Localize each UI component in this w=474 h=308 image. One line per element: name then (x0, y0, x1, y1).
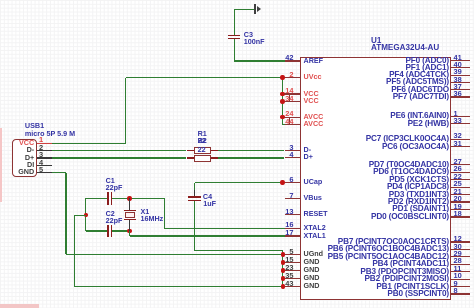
U1 pin number 4 (289, 150, 293, 159)
U1 pin name GND (304, 282, 320, 291)
wire GND: run to UGnd (66, 254, 283, 255)
U1 pin name RESET (304, 210, 328, 219)
U1 pin number 44 (285, 117, 293, 126)
wire GND: from USB1 pin5 (52, 172, 66, 173)
wire GND: to GND pin row 1 (283, 254, 286, 255)
label C4 value (203, 200, 216, 209)
resistor R2 lead right (211, 157, 218, 158)
USB1 pin name D- (27, 146, 35, 155)
U1 pin 7 VBus (left) (285, 198, 301, 199)
label C4 (203, 193, 212, 202)
U1 pin name PF6 (ADC6TDO (391, 85, 449, 95)
U1 pin number 26 (454, 164, 462, 173)
USB1 pin number 3 (39, 150, 43, 159)
wire VCC: to AVCC pin24 (282, 117, 285, 118)
U1 pin name PD3 (TXD1INT3) (389, 190, 449, 200)
wire AREF-net: vertical into C3 (234, 9, 235, 35)
U1 pin name VBus (304, 194, 322, 203)
U1 pin name PB3 (PDOPCINT3MISO) (360, 267, 449, 277)
U1 pin number 24 (285, 109, 293, 118)
U1 pin name XTAL1 (304, 232, 326, 241)
U1 pin 19 PD1 (SDAINT1) (right) (451, 209, 470, 210)
U1 pin name PB6 (PCINT6OC1BOC4BADC13) (328, 244, 449, 254)
U1 pin number 17 (285, 228, 293, 237)
wire D+: R2 to U1 (218, 157, 285, 158)
U1 pin 33 PE2 (HWB) (right) (451, 123, 470, 124)
U1 pin number 19 (454, 202, 462, 211)
wire GND: stub to down-line (74, 215, 86, 216)
U1 pin 40 PF1 (ADC1) (right) (451, 67, 470, 68)
resistor R2 lead left (187, 157, 194, 158)
U1 pin name PB0 (SSPCINT0) (387, 289, 449, 299)
wire VCC: to AVCC pin44 (282, 124, 285, 125)
U1 pin name XTAL2 (304, 224, 326, 233)
U1 pin name PF0 (ADC0) (405, 56, 449, 66)
wire GND: left vertical down (74, 215, 75, 287)
U1 pin number 8 (454, 286, 458, 295)
U1 pin name VCC (304, 90, 319, 99)
U1 pin 5 UGnd (left) (285, 254, 301, 255)
capacitor C3 100nF (228, 35, 239, 36)
U1 pin number 27 (454, 157, 462, 166)
U1 pin 13 RESET (left) (285, 214, 301, 215)
U1 pin name PD4 (ICP1ADC8) (387, 182, 449, 192)
U1 pin 11 PB3 (PDOPCINT3MISO) (right) (451, 271, 470, 272)
U1 pin number 21 (454, 187, 462, 196)
USB1 pin name D+ (25, 154, 34, 163)
U1 pin name PC6 (OC3AOC4A) (382, 142, 449, 152)
U1 pin name UCap (304, 178, 323, 187)
junction GND row 4 (281, 276, 286, 281)
junction XTAL2-net at X1 top (127, 196, 132, 201)
U1 pin name AVCC (304, 120, 324, 129)
wire XTAL2-net: to XTAL2 pin (164, 228, 285, 229)
U1 pin number 29 (454, 249, 462, 258)
U1 pin 34 VCC (left) (285, 101, 301, 102)
label R1 (198, 130, 207, 139)
U1 pin name PD1 (SDAINT1) (392, 204, 449, 214)
U1 pin number 2 (289, 70, 293, 79)
crystal X1 lead bottom (129, 220, 130, 232)
U1 pin number 12 (454, 234, 462, 243)
wire GND: to GND pin row 2 (283, 262, 286, 263)
label R1 value 22 (198, 137, 206, 146)
crystal X1 plate top (124, 210, 135, 211)
U1 pin 2 UVcc (left) (285, 77, 301, 78)
junction UCAP at pin6 (280, 180, 285, 185)
USB1 pin number 5 (39, 165, 43, 174)
U1 pin 10 PB2 (PDIPCINT2MOSI) (right) (451, 279, 470, 280)
label C1 (106, 177, 115, 186)
U1 pin name PD2 (RXD1INT2) (388, 197, 449, 207)
wire GND: USB down-line (65, 173, 66, 255)
U1 pin 1 PE6 (INT.6AIN0) (right) (451, 116, 470, 117)
wire GND: C4 down (194, 201, 195, 251)
wire XTAL1-net: to XTAL1 pin (130, 235, 286, 236)
USB1 pin 3 D+ (37, 157, 52, 158)
U1 pin name PB1 (PCINT1SCLK) (376, 282, 449, 292)
wire GND: C4 run to bus (195, 250, 283, 251)
wire GND: jog into UGnd dot (282, 251, 283, 255)
U1 pin name D+ (304, 153, 313, 162)
U1 pin 8 PB0 (SSPCINT0) (right) (451, 293, 470, 294)
U1 pin name GND (304, 266, 320, 275)
junction GND row 5 (281, 284, 286, 289)
U1 pin 16 XTAL2 (left) (285, 228, 301, 229)
USB1 pin 4 DI (37, 165, 52, 166)
label R2 value 22 (198, 146, 206, 155)
U1 pin name AREF (304, 57, 324, 66)
junction VCC at UVcc (280, 75, 285, 80)
wire GND: bus at U1 (282, 255, 283, 287)
U1 pin name PD6 (T1OC4DADC9) (373, 167, 449, 177)
wire VCC: to VCC pin34 (282, 101, 285, 102)
wire XTAL2-net: C1 to X1 node (112, 198, 164, 199)
joiner pins 24-44 (289, 117, 290, 124)
U1 pin 22 PD5 (XCK1CTS) (right) (451, 179, 470, 180)
U1 pin number 7 (289, 191, 293, 200)
U1 pin name UGnd (304, 250, 324, 259)
connector USB1 body (12, 139, 37, 177)
wire GND: bottom run to pin43 (74, 286, 283, 287)
crystal X1 plate bottom (124, 219, 135, 220)
U1 pin name PD5 (XCK1CTS) (389, 175, 449, 185)
wire XTAL2-net: down right of X1 (164, 198, 165, 228)
U1 pin name PB2 (PDIPCINT2MOSI) (365, 274, 450, 284)
wire VCC: top run to UVcc (126, 77, 286, 78)
U1 pin 28 PB4 (PCINT4ADC11) (right) (451, 264, 470, 265)
wire VCC: to VCC pin14 (282, 93, 285, 94)
U1 pin number 20 (454, 194, 462, 203)
U1 pin number 40 (454, 60, 462, 69)
U1 pin number 23 (285, 263, 293, 272)
U1 pin number 37 (454, 82, 462, 91)
wire D-: USB to R1 (52, 150, 186, 151)
resistor R2 22 (194, 155, 211, 162)
label USB1 value (25, 130, 75, 139)
wire GND: to GND pin row 3 (283, 270, 286, 271)
U1 pin name PD7 (T0OC4DADC10) (369, 160, 449, 170)
U1 pin 36 PF7 (ADC7TDI) (right) (451, 96, 470, 97)
U1 pin number 22 (454, 172, 462, 181)
U1 pin 37 PF6 (ADC6TDO (right) (451, 89, 470, 90)
label C1 value (106, 184, 123, 193)
U1 pin 12 PB7 (PCINT7OC0AOC1CRTS) (right) (451, 241, 470, 242)
U1 pin number 38 (454, 75, 462, 84)
U1 pin name GND (304, 274, 320, 283)
label C3 (244, 31, 253, 40)
junction GND row 2 (281, 260, 286, 265)
U1 pin name VCC (304, 97, 319, 106)
USB1 pin number 1 (39, 135, 43, 144)
U1 pin name GND (304, 258, 320, 267)
crystal X1 body (125, 212, 134, 217)
U1 pin name D- (304, 146, 312, 155)
wire GND: caps left vertical (85, 198, 86, 231)
U1 pin number 33 (454, 116, 462, 125)
U1 pin 24 AVCC (left) (285, 117, 301, 118)
wire VCC: bus down left of U1 (282, 78, 283, 125)
U1 pin name AVCC (304, 113, 324, 122)
U1 pin 32 PC7 (ICP3CLK0OC4A) (right) (451, 139, 470, 140)
wire AREF-net: ground lead (234, 9, 255, 10)
U1 pin name PF1 (ADC1) (405, 63, 449, 73)
U1 pin 35 GND (left) (285, 278, 301, 279)
junction VCC at pin24 (280, 115, 285, 120)
label X1 (141, 208, 150, 217)
U1 pin 23 GND (left) (285, 270, 301, 271)
wire AREF-net: to AREF pin (234, 60, 284, 61)
U1 pin number 31 (454, 139, 462, 148)
U1 pin 26 PD6 (T1OC4DADC9) (right) (451, 172, 470, 173)
U1 pin number 15 (285, 255, 293, 264)
U1 pin number 18 (454, 209, 462, 218)
U1 pin name PB5 (PCINT5OC1AOC4BADC12) (328, 252, 449, 262)
U1 pin 30 PB6 (PCINT6OC1BOC4BADC13) (right) (451, 249, 470, 250)
junction VCC at pin34 (280, 99, 285, 104)
wire XTAL1-net: jog down (129, 231, 130, 236)
U1 pin number 1 (454, 109, 458, 118)
U1 pin name PF4 (ADC4TCK) (389, 70, 449, 80)
U1 pin 43 GND (left) (285, 286, 301, 287)
U1 pin number 35 (285, 271, 293, 280)
capacitor C1 22pF (107, 192, 108, 205)
U1 pin number 42 (285, 53, 293, 62)
U1 pin 20 PD2 (RXD1INT2) (right) (451, 201, 470, 202)
U1 pin number 3 (289, 143, 293, 152)
wire XTAL2-net: left to C1 (86, 198, 108, 199)
wire VCC: up (125, 78, 126, 144)
U1 pin 41 PF0 (ADC0) (right) (451, 60, 470, 61)
U1 pin 42 AREF (left) (285, 60, 301, 61)
U1 pin number 11 (454, 264, 462, 273)
U1 pin 31 PC6 (OC3AOC4A) (right) (451, 146, 470, 147)
U1 pin number 9 (454, 279, 458, 288)
U1 pin 39 PF4 (ADC4TCK) (right) (451, 75, 470, 76)
wire D-: R1 to U1 (218, 150, 285, 151)
wire D+: USB to R2 (52, 157, 186, 158)
resistor R1 lead right (211, 150, 218, 151)
U1 pin number 10 (454, 271, 462, 280)
U1 pin 25 PD4 (ICP1ADC8) (right) (451, 187, 470, 188)
U1 pin 27 PD7 (T0OC4DADC10) (right) (451, 164, 470, 165)
junction GND row 1 (281, 252, 286, 257)
U1 pin number 28 (454, 256, 462, 265)
crystal X1 16MHz lead top (129, 198, 130, 210)
junction GND row 3 (281, 268, 286, 273)
U1 pin number 32 (454, 131, 462, 140)
resistor R1 22 (194, 147, 211, 154)
U1 pin 29 PB5 (PCINT5OC1AOC4BADC12) (right) (451, 256, 470, 257)
U1 pin number 34 (285, 94, 293, 103)
U1 pin name PB7 (PCINT7OC0AOC1CRTS) (338, 237, 449, 247)
wire AREF-net: C3 down (234, 39, 235, 61)
U1 pin number 39 (454, 67, 462, 76)
wire XTAL1-net: C2 to X1 node (112, 230, 130, 231)
USB1 pin number 4 (39, 158, 43, 167)
U1 pin name PF7 (ADC7TDI) (393, 92, 449, 102)
U1 pin 14 VCC (left) (285, 93, 301, 94)
U1 pin 21 PD3 (TXD1INT3) (right) (451, 194, 470, 195)
resistor R1 lead left (187, 150, 194, 151)
junction VCC at pin14 (280, 92, 285, 97)
label U1 (371, 36, 381, 46)
capacitor C4 1uF (194, 190, 195, 197)
label X1 value (141, 215, 164, 224)
wire GND: to GND pin row 5 (283, 286, 286, 287)
U1 pin 18 PD0 (OC0BSCLINT0) (right) (451, 216, 470, 217)
U1 pin name PB4 (PCINT4ADC11) (372, 259, 449, 269)
label R2 (overlapping R1 value 22) (198, 137, 207, 146)
U1 pin 3 D- (left) (285, 150, 301, 151)
U1 pin number 43 (285, 279, 293, 288)
U1 pin 6 UCap (left) (285, 182, 301, 183)
U1 pin 17 XTAL1 (left) (285, 235, 301, 236)
label C2 value (106, 217, 123, 226)
U1 pin 4 D+ (left) (285, 157, 301, 158)
junction GND at caps-left (84, 213, 89, 218)
U1 pin 38 PF5 (ADC5TMS)) (right) (451, 82, 470, 83)
label C3 value (244, 38, 265, 47)
USB1 pin name GND (18, 168, 34, 177)
USB1 pin 2 D- (37, 150, 52, 151)
U1 pin name PD0 (OC0BSCLINT0) (371, 212, 449, 222)
label C2 (106, 210, 115, 219)
wire XTAL1-net: left to C2 (86, 230, 108, 231)
USB1 pin number 2 (39, 143, 43, 152)
U1 pin number 36 (454, 89, 462, 98)
U1 pin 15 GND (left) (285, 262, 301, 263)
U1 pin 9 PB1 (PCINT1SCLK) (right) (451, 286, 470, 287)
wire VCC: from USB1 pin1 (52, 143, 126, 144)
U1 pin number 41 (454, 53, 462, 62)
U1 pin number 14 (285, 86, 293, 95)
U1 pin number 5 (289, 247, 293, 256)
joiner pins 14-34 (289, 94, 290, 101)
junction XTAL1-net at X1 bottom (127, 229, 132, 234)
wire GND: to GND pin row 4 (283, 278, 286, 279)
USB1 pin 5 GND (37, 172, 52, 173)
U1 pin number 6 (289, 175, 293, 184)
ground symbol (GND, rotated) (254, 4, 256, 14)
USB1 pin name VCC (19, 139, 34, 148)
capacitor C2 22pF (107, 225, 108, 238)
U1 pin number 30 (454, 242, 462, 251)
U1 pin name PF5 (ADC5TMS)) (386, 77, 449, 87)
U1 pin number 16 (285, 220, 293, 229)
wire UCAP: down to C4 (194, 183, 195, 197)
U1 pin name PC7 (ICP3CLK0OC4A) (366, 134, 449, 144)
U1 pin number 13 (285, 207, 293, 216)
U1 pin number 25 (454, 179, 462, 188)
label USB1 (25, 122, 44, 131)
U1 pin name PE2 (HWB) (408, 119, 449, 129)
label U1 value (371, 43, 439, 53)
U1 pin name UVcc (304, 73, 322, 82)
U1 pin name PE6 (INT.6AIN0) (390, 111, 449, 121)
USB1 pin name DI (27, 161, 34, 170)
op-amp/IC U1 ATMEGA32U4-AU body (300, 57, 451, 300)
USB1 pin 1 VCC (37, 143, 52, 144)
wire UCAP: to U1 pin6 (195, 182, 284, 183)
U1 pin 44 AVCC (left) (285, 124, 301, 125)
